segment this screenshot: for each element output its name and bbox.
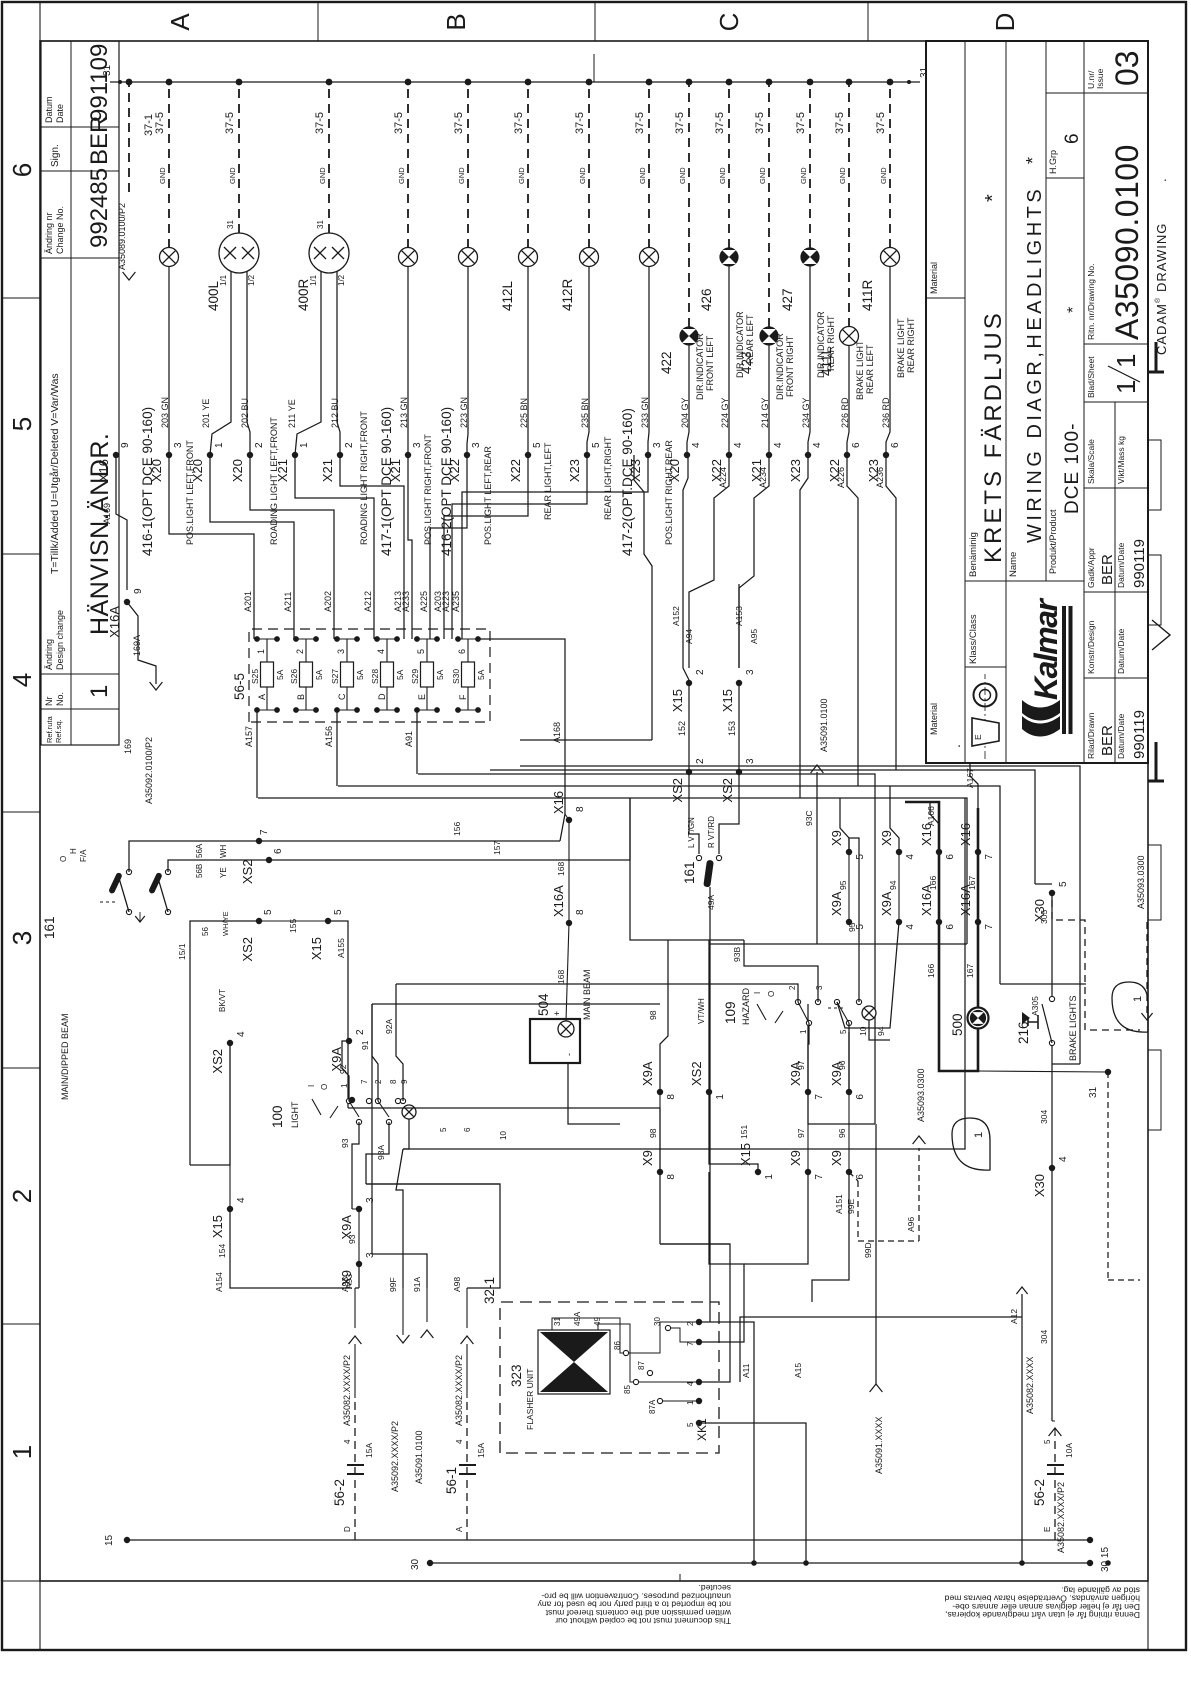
svg-text:202 BU: 202 BU — [240, 398, 250, 428]
thick margin mark — [1155, 742, 1158, 781]
lamp 500 main beam indicator — [968, 1008, 989, 1029]
connector X16A:7 — [975, 919, 981, 925]
svg-text:A166: A166 — [926, 806, 936, 826]
svg-text:1: 1 — [86, 685, 113, 698]
svg-text:30: 30 — [653, 1317, 662, 1326]
wire 214 GY — [768, 345, 770, 455]
svg-text:427: 427 — [780, 288, 795, 311]
connector X20:3 — [166, 452, 172, 458]
svg-text:1: 1 — [764, 1174, 775, 1180]
svg-text:A35091.XXXX: A35091.XXXX — [874, 1416, 884, 1474]
svg-text:-: - — [564, 1053, 574, 1056]
svg-text:X9: X9 — [640, 1150, 655, 1166]
svg-text:1: 1 — [1111, 380, 1141, 394]
svg-text:93: 93 — [347, 1234, 357, 1244]
svg-text:161: 161 — [42, 916, 57, 939]
wire A168 — [478, 639, 565, 814]
flasher 323 bowtie — [538, 1330, 610, 1394]
wire BK/VT to XS2:4 — [190, 1043, 230, 1165]
svg-text:S28: S28 — [370, 669, 380, 684]
svg-text:BER: BER — [86, 116, 113, 165]
svg-text:F: F — [458, 694, 468, 700]
svg-text:X16: X16 — [919, 823, 934, 846]
brake pedal switch 216 — [1049, 1040, 1054, 1045]
svg-text:X9A: X9A — [640, 1061, 655, 1086]
wire 233 GN — [648, 267, 649, 456]
wire to X30 area — [978, 1071, 1108, 1072]
svg-text:4: 4 — [236, 1197, 247, 1203]
svg-text:A223: A223 — [441, 591, 451, 612]
indicator 504 MAIN BEAM — [530, 1019, 580, 1063]
svg-text:Ritn. nr/Drawing No.: Ritn. nr/Drawing No. — [1086, 263, 1096, 340]
svg-text:A35092.0100/P2: A35092.0100/P2 — [144, 737, 154, 804]
svg-text:992485: 992485 — [86, 168, 113, 248]
svg-text:6: 6 — [945, 854, 956, 860]
svg-text:5A: 5A — [355, 669, 365, 680]
svg-text:37-5: 37-5 — [224, 112, 236, 134]
svg-text:Ändring nr: Ändring nr — [44, 212, 54, 254]
fuse S30 5A — [462, 662, 475, 687]
wire 236 RD — [886, 267, 890, 456]
svg-text:4: 4 — [376, 649, 386, 654]
wire X30:5 dashed to A305 — [1052, 900, 1140, 1030]
thick wire 166/167 main beam loop — [905, 802, 978, 1071]
svg-text:LIGHT: LIGHT — [290, 1101, 300, 1128]
wire 203 GN — [168, 267, 170, 456]
connector X9:8 — [657, 1169, 663, 1175]
connector X16:6 — [936, 849, 942, 855]
svg-text:A15: A15 — [793, 1363, 803, 1378]
svg-text:97: 97 — [796, 1060, 806, 1070]
svg-text:A96: A96 — [906, 1217, 916, 1232]
fuse S29 5A — [421, 662, 434, 687]
wire 93 from pin5 — [352, 1122, 359, 1209]
svg-text:POS.LIGHT LEFT,REAR: POS.LIGHT LEFT,REAR — [483, 446, 493, 545]
connector X16A:6 — [936, 919, 942, 925]
wire A93 — [358, 1264, 360, 1288]
svg-text:31: 31 — [316, 220, 325, 229]
connector XS2:2 — [686, 769, 692, 775]
svg-text:226 RD: 226 RD — [840, 397, 850, 428]
svg-text:A35090.0100: A35090.0100 — [1109, 144, 1145, 340]
supply rail 15 — [127, 1539, 1090, 1541]
svg-text:6: 6 — [457, 649, 467, 654]
svg-text:A154: A154 — [214, 1272, 224, 1292]
svg-text:E: E — [973, 734, 983, 740]
svg-text:5: 5 — [1058, 881, 1069, 887]
svg-text:R VT/RD: R VT/RD — [707, 816, 716, 848]
svg-text:Sign.: Sign. — [50, 144, 61, 167]
connector X20:2 — [247, 452, 253, 458]
svg-text:A35093.0300: A35093.0300 — [1136, 855, 1146, 909]
svg-text:5A: 5A — [395, 669, 405, 680]
svg-text:214 GY: 214 GY — [760, 397, 770, 428]
svg-text:A: A — [165, 13, 195, 31]
svg-text:GND: GND — [397, 167, 406, 184]
svg-text:X16: X16 — [551, 791, 566, 814]
connector X9:3 — [356, 1261, 362, 1267]
svg-text:Vikt/Mass kg: Vikt/Mass kg — [1116, 436, 1126, 484]
lamp 411R BRAKE LIGHT REAR RIGHT — [881, 248, 900, 267]
svg-text:DIR.INDICATOR: DIR.INDICATOR — [775, 333, 785, 400]
svg-text:BRAKE LIGHTS: BRAKE LIGHTS — [1068, 995, 1078, 1061]
svg-text:2: 2 — [686, 1321, 695, 1326]
svg-text:37-5: 37-5 — [714, 112, 726, 134]
fuse S27 5A — [341, 662, 354, 687]
svg-text:DRAWING: DRAWING — [1154, 223, 1169, 292]
svg-text:X15: X15 — [720, 689, 735, 712]
svg-text:A12: A12 — [1009, 1309, 1019, 1324]
connector XS2:5 — [256, 918, 262, 924]
svg-text:5: 5 — [439, 1127, 448, 1132]
svg-text:1: 1 — [7, 1445, 37, 1459]
wire A223 — [452, 455, 587, 639]
svg-text:.: . — [947, 744, 963, 748]
svg-text:A35092.XXXX/P2: A35092.XXXX/P2 — [390, 1421, 400, 1492]
svg-text:169A: 169A — [132, 635, 142, 656]
svg-text:1: 1 — [686, 1400, 695, 1405]
svg-text:FRONT RIGHT: FRONT RIGHT — [785, 335, 795, 397]
svg-text:30: 30 — [410, 1558, 421, 1570]
wire A153/A95 to X15:3 — [738, 584, 740, 668]
connector X16:9 — [113, 452, 119, 458]
connector X9:6 — [846, 1169, 852, 1175]
svg-text:Ref.ruta: Ref.ruta — [45, 715, 54, 743]
flasher wires to XK1 — [623, 1350, 628, 1355]
svg-text:VT/WH: VT/WH — [697, 998, 706, 1024]
svg-text:1: 1 — [340, 1083, 349, 1088]
wire A157 — [256, 710, 258, 798]
wire 91 from pin2 — [372, 1004, 378, 1101]
connector X21:2 — [337, 452, 343, 458]
wire 93b — [352, 1208, 359, 1210]
svg-text:1: 1 — [256, 649, 266, 654]
svg-text:91: 91 — [360, 1040, 370, 1050]
supply rail 30 — [430, 1562, 1090, 1564]
bus junction at y=239 — [236, 79, 243, 86]
wire 223 GN — [467, 267, 468, 456]
svg-text:I: I — [307, 1085, 316, 1087]
svg-text:A35089.0100/P2: A35089.0100/P2 — [117, 203, 127, 270]
wire 225 BN — [527, 267, 529, 456]
svg-text:X15: X15 — [670, 689, 685, 712]
connector X9A:5 — [846, 919, 852, 925]
wire 98 — [659, 1092, 661, 1172]
svg-text:BER: BER — [1099, 554, 1116, 585]
svg-text:GND: GND — [158, 167, 167, 184]
wire 93A from pin6 — [366, 1122, 389, 1184]
svg-text:169: 169 — [123, 739, 133, 754]
bus junction at y=169 — [166, 79, 173, 86]
svg-text:A234: A234 — [758, 467, 768, 488]
wire 97/96 down from hazard — [807, 1004, 809, 1092]
svg-text:Nr: Nr — [44, 697, 54, 707]
wire A213 — [340, 455, 404, 639]
svg-text:1: 1 — [973, 1132, 985, 1138]
lamp in switch 100 — [402, 1105, 416, 1119]
svg-text:KRETS FÄRDLJUS: KRETS FÄRDLJUS — [980, 310, 1007, 563]
wire A11 — [699, 1322, 754, 1563]
svg-text:REAR LIGHT,LEFT: REAR LIGHT,LEFT — [543, 442, 553, 520]
svg-text:I: I — [753, 992, 762, 994]
svg-text:1: 1 — [1111, 354, 1141, 368]
wire 154 to X15:4 — [229, 1043, 231, 1209]
svg-text:8: 8 — [575, 806, 586, 812]
svg-text:4: 4 — [236, 1031, 247, 1037]
svg-text:422: 422 — [659, 351, 674, 374]
svg-text:223 GN: 223 GN — [459, 397, 469, 428]
svg-text:37-5: 37-5 — [634, 112, 646, 134]
svg-text:A35093.0300: A35093.0300 — [916, 1068, 926, 1122]
svg-text:S26: S26 — [289, 669, 299, 684]
svg-text:D: D — [377, 693, 387, 700]
product row — [1046, 177, 1084, 179]
connector X22:3 — [464, 452, 470, 458]
svg-text:A: A — [455, 1526, 464, 1532]
svg-text:A169: A169 — [102, 503, 112, 524]
svg-text:X23: X23 — [567, 459, 582, 482]
svg-text:411L: 411L — [819, 346, 834, 376]
svg-text:7: 7 — [984, 854, 995, 860]
wire A225 — [430, 455, 467, 639]
trunk wire lx898 — [338, 786, 1000, 984]
connector X30:4 — [1049, 1165, 1055, 1171]
wire to A35082.XXXX/P2 (2) — [466, 1344, 468, 1398]
svg-text:A226: A226 — [836, 467, 846, 488]
svg-text:305: 305 — [1039, 910, 1049, 924]
svg-text:3: 3 — [745, 758, 756, 764]
svg-text:87A: 87A — [648, 1399, 657, 1414]
svg-text:E: E — [417, 694, 427, 700]
svg-text:15/1: 15/1 — [177, 943, 187, 960]
svg-text:6: 6 — [273, 848, 284, 854]
svg-text:166: 166 — [926, 964, 936, 978]
svg-text:411R: 411R — [860, 279, 875, 311]
zone number strip (top) — [2, 1323, 40, 1325]
svg-text:Benäminig: Benäminig — [968, 532, 979, 577]
off-page arrow A35091.0100 (93C) — [816, 772, 818, 944]
wire A233 — [408, 455, 412, 639]
wire 152 — [688, 683, 690, 772]
svg-text:5: 5 — [686, 1422, 695, 1427]
svg-text:A35082.XXXX/P2: A35082.XXXX/P2 — [454, 1355, 464, 1426]
svg-text:37-5: 37-5 — [795, 112, 807, 134]
svg-text:1/1: 1/1 — [309, 274, 318, 286]
svg-text:7: 7 — [814, 1094, 825, 1100]
bus junction at y=129 — [126, 79, 133, 86]
connector X22:6 — [844, 452, 850, 458]
wire to A35082.XXXX/P2 (1) — [354, 1344, 356, 1398]
zone letter strip (right) — [317, 2, 319, 41]
svg-text:O: O — [59, 856, 68, 862]
svg-text:A: A — [257, 694, 267, 700]
svg-text:234 GY: 234 GY — [801, 397, 811, 428]
svg-text:3: 3 — [365, 1197, 376, 1203]
svg-text:A202: A202 — [323, 591, 333, 612]
svg-text:212 BU: 212 BU — [330, 398, 340, 428]
svg-text:151: 151 — [739, 1125, 749, 1139]
svg-text:Produkt/Product: Produkt/Product — [1048, 509, 1058, 574]
svg-text:990119: 990119 — [1131, 710, 1148, 759]
svg-text:7: 7 — [259, 829, 270, 835]
svg-text:94: 94 — [876, 1026, 886, 1036]
svg-text:X21: X21 — [320, 459, 335, 482]
svg-text:Ändring: Ändring — [44, 639, 54, 670]
svg-text:5: 5 — [333, 909, 344, 915]
wire mesh interconnects — [744, 1172, 808, 1264]
wire 213 GN — [407, 267, 409, 456]
ground bus 31 — [110, 81, 920, 83]
revision flag 1 (a) — [1112, 982, 1148, 1032]
svg-text:1: 1 — [214, 442, 225, 448]
wire 56 WH/YE to XS2:5 — [190, 921, 259, 942]
wire 96 hazard — [848, 1023, 850, 1092]
connector X9:2 — [349, 1097, 355, 1103]
wire A236 from X23:6 — [886, 455, 896, 770]
svg-text:6: 6 — [855, 1094, 866, 1100]
svg-text:98: 98 — [648, 1010, 658, 1020]
svg-text:423: 423 — [739, 351, 754, 374]
svg-text:9: 9 — [133, 588, 144, 594]
wire 234 GY — [808, 267, 810, 456]
wire A155 — [328, 921, 348, 1108]
svg-text:D: D — [990, 13, 1020, 32]
svg-text:4: 4 — [905, 924, 916, 930]
svg-text:03: 03 — [1109, 50, 1145, 86]
svg-text:GND: GND — [758, 167, 767, 184]
svg-text:37-5: 37-5 — [875, 112, 887, 134]
svg-text:*: * — [1065, 307, 1082, 313]
svg-text:6: 6 — [7, 163, 37, 177]
connector X16:7 — [975, 849, 981, 855]
svg-text:Datum/Date: Datum/Date — [1116, 542, 1126, 588]
svg-text:Rilad/Drawn: Rilad/Drawn — [1086, 712, 1096, 759]
svg-text:1/2: 1/2 — [337, 274, 346, 286]
svg-text:15A: 15A — [476, 1443, 486, 1458]
wire XK1:7 — [699, 1172, 744, 1342]
wire 15/1 — [189, 942, 191, 1165]
wire 167 — [977, 852, 979, 922]
svg-text:XS2: XS2 — [720, 778, 735, 803]
svg-text:225 BN: 225 BN — [519, 398, 529, 428]
svg-text:154: 154 — [217, 1244, 227, 1258]
svg-text:X20: X20 — [190, 459, 205, 482]
svg-text:A11: A11 — [741, 1363, 751, 1378]
svg-text:GND: GND — [457, 167, 466, 184]
svg-text:X16A: X16A — [551, 885, 566, 917]
svg-text:49A: 49A — [573, 1311, 582, 1326]
wire 56B YE to XS2:6 — [168, 860, 600, 872]
svg-text:Material: Material — [929, 703, 939, 735]
svg-text:7: 7 — [360, 1079, 369, 1084]
svg-text:152: 152 — [677, 721, 687, 736]
svg-text:A94: A94 — [684, 629, 694, 644]
svg-text:56A: 56A — [195, 843, 204, 858]
svg-text:BK/VT: BK/VT — [218, 989, 227, 1012]
wire A12 — [1021, 1294, 1023, 1563]
wire A152/A94 to X15:2 — [683, 584, 689, 680]
svg-text:A35082.XXXX/P2: A35082.XXXX/P2 — [1056, 1482, 1066, 1553]
svg-text:31: 31 — [1088, 1086, 1099, 1098]
svg-text:56B: 56B — [195, 864, 204, 878]
fuse box 56-5 — [249, 629, 490, 722]
connector X23:6 — [883, 452, 889, 458]
svg-text:Skala/Scale: Skala/Scale — [1086, 439, 1096, 484]
wire L VT/GN — [689, 772, 699, 854]
svg-text:Datum: Datum — [44, 96, 54, 123]
title block — [926, 41, 1148, 763]
svg-text:A235: A235 — [451, 591, 461, 612]
svg-text:87: 87 — [637, 1361, 646, 1370]
connector X16A:9 — [124, 599, 130, 605]
connector X20:4 — [684, 452, 690, 458]
bus junction at y=729 — [726, 79, 733, 86]
wire 155 to X15:5 — [259, 920, 328, 922]
svg-text:9: 9 — [120, 442, 131, 448]
wire from X23:4 — [800, 455, 808, 798]
connector X22:5 — [525, 452, 531, 458]
svg-text:A225: A225 — [419, 591, 429, 612]
svg-text:167: 167 — [967, 876, 977, 890]
svg-text:426: 426 — [699, 288, 714, 311]
connector X21:3 — [405, 452, 411, 458]
svg-text:A212: A212 — [363, 591, 373, 612]
svg-text:X23: X23 — [628, 459, 643, 482]
wire 94 jog — [890, 786, 899, 852]
svg-text:H: H — [69, 848, 78, 854]
svg-text:POS.LIGHT RIGHT,REAR: POS.LIGHT RIGHT,REAR — [664, 440, 674, 545]
svg-text:S29: S29 — [410, 669, 420, 684]
wire 95 jog — [840, 798, 849, 852]
svg-text:6: 6 — [1062, 133, 1083, 144]
svg-text:YE: YE — [219, 867, 228, 878]
wire 95 hazard — [849, 838, 859, 1002]
svg-text:X20: X20 — [667, 459, 682, 482]
svg-text:4: 4 — [812, 442, 823, 448]
svg-text:5: 5 — [263, 909, 274, 915]
connector X16:9 wire 169/A169 — [116, 455, 127, 590]
svg-text:6: 6 — [851, 442, 862, 448]
svg-text:6: 6 — [945, 924, 956, 930]
svg-text:.: . — [1154, 178, 1169, 182]
svg-text:168: 168 — [556, 862, 566, 876]
off-page arrow A35092.0100/P2 — [127, 602, 156, 684]
svg-text:D: D — [343, 1526, 352, 1532]
svg-text:DCE 100-: DCE 100- — [1062, 423, 1083, 514]
wire XK1:4 down — [660, 1244, 730, 1382]
wire A156 — [336, 710, 338, 786]
svg-text:Material: Material — [929, 262, 939, 294]
svg-text:96: 96 — [837, 1060, 847, 1070]
svg-text:REAR LIGHT,RIGHT: REAR LIGHT,RIGHT — [603, 436, 613, 520]
svg-text:8: 8 — [666, 1174, 677, 1180]
wire 94 hazard — [837, 922, 899, 1028]
svg-text:161: 161 — [682, 861, 697, 884]
svg-text:A98: A98 — [452, 1277, 462, 1292]
svg-text:235 BN: 235 BN — [580, 398, 590, 428]
wire 92 to X9A:2 — [342, 1041, 349, 1101]
svg-text:XS2: XS2 — [240, 937, 255, 962]
svg-text:A35091.0100: A35091.0100 — [819, 698, 829, 752]
bus junction at y=769 — [766, 79, 773, 86]
bus junction at y=589 — [586, 79, 593, 86]
lamp 427 DIR.INDICATOR REAR RIGHT — [801, 248, 819, 266]
svg-text:2: 2 — [355, 1029, 366, 1035]
svg-text:94: 94 — [888, 880, 898, 890]
bus junction at y=849 — [846, 79, 853, 86]
svg-text:2: 2 — [344, 442, 355, 448]
connector XS2:6 — [266, 857, 272, 863]
